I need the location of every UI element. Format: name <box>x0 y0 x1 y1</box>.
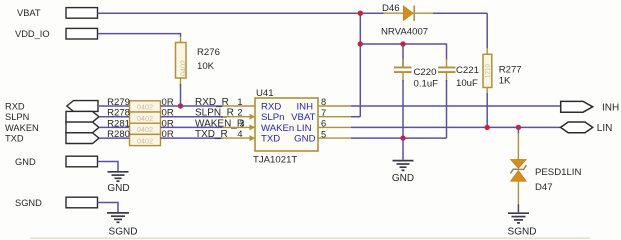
wire INH <box>351 105 561 107</box>
wire VBAT rail right of diode <box>433 12 487 14</box>
wire pin7 to VBAT vertical <box>351 116 360 118</box>
wire rail2 <box>360 44 446 60</box>
svg-text:5: 5 <box>321 129 326 139</box>
svg-text:0402: 0402 <box>137 136 153 145</box>
svg-text:VBAT: VBAT <box>291 112 315 123</box>
resistor R277 <box>483 13 522 94</box>
svg-text:SLPn: SLPn <box>261 112 284 123</box>
svg-text:1K: 1K <box>499 76 511 87</box>
resistor R281 <box>107 118 174 134</box>
ground SGND right <box>508 213 537 237</box>
svg-text:C221: C221 <box>456 65 479 76</box>
ground GND left <box>107 172 129 194</box>
wire C220 to GND <box>402 80 404 138</box>
wire SLPN_R <box>161 116 223 118</box>
svg-text:0402: 0402 <box>178 60 187 76</box>
svg-text:SGND: SGND <box>15 198 42 208</box>
svg-text:R281: R281 <box>107 118 130 129</box>
port GND <box>15 156 98 167</box>
svg-text:INH: INH <box>602 103 619 114</box>
svg-text:U41: U41 <box>256 88 274 99</box>
port TXD <box>5 133 99 144</box>
bottom border line <box>30 237 590 239</box>
wire SLPN row left <box>99 116 130 118</box>
wire LIN <box>351 126 561 128</box>
svg-text:7: 7 <box>321 108 326 118</box>
junction rail2 <box>358 41 363 46</box>
svg-text:C220: C220 <box>414 67 437 78</box>
svg-text:INH: INH <box>296 101 313 112</box>
junction rail2 C220 <box>400 41 405 46</box>
svg-text:D47: D47 <box>535 182 553 193</box>
svg-text:WAKEN: WAKEN <box>5 123 39 133</box>
port INH <box>561 101 620 113</box>
diode D46 <box>381 3 433 38</box>
diode D47 PESD1LIN <box>511 127 582 205</box>
pin 3 stub <box>223 124 256 130</box>
pin 7 stub <box>318 116 351 118</box>
svg-text:GND: GND <box>107 183 129 194</box>
port VBAT <box>17 8 98 19</box>
svg-text:SGND: SGND <box>508 227 537 238</box>
port LIN <box>561 122 613 134</box>
svg-text:LIN: LIN <box>297 123 312 134</box>
svg-text:VDD_IO: VDD_IO <box>15 29 50 39</box>
wire SGND port <box>98 203 119 213</box>
junction R276/RXD_R <box>178 103 183 108</box>
capacitor C221 <box>438 59 479 89</box>
svg-text:TJA1021T: TJA1021T <box>253 155 297 166</box>
pin 8 stub <box>318 105 351 107</box>
svg-text:0.1uF: 0.1uF <box>414 79 439 90</box>
wire VBAT rail <box>98 12 384 14</box>
port RXD <box>5 101 98 112</box>
port SGND <box>15 197 98 208</box>
svg-text:TXD: TXD <box>261 134 280 145</box>
svg-text:NRVA4007: NRVA4007 <box>381 27 428 38</box>
svg-text:WAKEn: WAKEn <box>261 123 294 134</box>
wire TXD row left <box>99 137 130 139</box>
svg-text:R277: R277 <box>499 65 522 76</box>
port WAKEN <box>5 122 99 133</box>
svg-text:0402: 0402 <box>137 114 153 123</box>
svg-text:R280: R280 <box>107 129 130 140</box>
svg-text:SGND: SGND <box>109 227 138 238</box>
resistor R280 <box>107 129 174 145</box>
svg-text:GND: GND <box>294 134 315 145</box>
svg-text:LIN: LIN <box>597 123 613 134</box>
svg-text:10uF: 10uF <box>456 78 478 89</box>
wire RXD_R <box>161 105 223 107</box>
svg-text:0402: 0402 <box>137 125 153 134</box>
ground GND center <box>392 138 414 184</box>
svg-text:D46: D46 <box>382 3 400 14</box>
wire D47 to SGND <box>517 205 519 213</box>
svg-text:3: 3 <box>239 118 244 128</box>
wire vertical VBAT to pin7 <box>359 13 361 117</box>
port VDD_IO <box>15 28 98 39</box>
resistor R276 <box>176 36 220 85</box>
wire WAKEN row left <box>99 126 130 128</box>
svg-text:R276: R276 <box>197 47 220 58</box>
svg-text:R278: R278 <box>107 108 130 119</box>
svg-text:GND: GND <box>15 157 36 167</box>
capacitor C220 <box>394 44 438 90</box>
wire C221 to GND <box>446 80 448 138</box>
wire R276 to RXD_R <box>180 84 182 106</box>
junction R277 LIN <box>485 125 490 130</box>
svg-text:RXD: RXD <box>5 101 25 111</box>
resistor R278 <box>107 108 174 124</box>
port SLPN <box>5 111 99 122</box>
resistor R279 <box>107 97 174 112</box>
pin 4 stub <box>223 135 256 141</box>
svg-text:0402: 0402 <box>137 103 153 112</box>
svg-text:4: 4 <box>237 129 242 139</box>
svg-text:TXD: TXD <box>5 134 24 144</box>
pin 2 stub <box>223 114 256 120</box>
svg-text:R279: R279 <box>107 97 130 108</box>
wire R277 to LIN <box>486 93 488 127</box>
svg-text:GND: GND <box>392 173 414 184</box>
junction C220 GND <box>400 135 405 140</box>
svg-text:RXD: RXD <box>261 101 281 112</box>
wire WAKEN_R <box>161 126 223 128</box>
ground SGND left <box>107 213 137 238</box>
svg-text:SLPN: SLPN <box>5 112 29 122</box>
IC U41 TJA1021T <box>253 88 318 166</box>
pin 5 stub <box>318 137 351 139</box>
svg-text:10K: 10K <box>197 61 215 72</box>
wire GND port <box>98 162 119 172</box>
wire TXD_R <box>161 137 223 139</box>
wire VDD_IO <box>98 34 181 37</box>
pin 6 stub <box>318 126 351 128</box>
svg-text:1: 1 <box>237 97 242 107</box>
svg-text:6: 6 <box>321 119 326 129</box>
svg-text:PESD1LIN: PESD1LIN <box>535 167 581 178</box>
pin 1 stub <box>223 105 256 107</box>
wire GND (pin 5) <box>351 137 447 139</box>
svg-text:1210: 1210 <box>484 63 491 78</box>
svg-text:2: 2 <box>237 108 242 118</box>
wire RXD row left <box>98 105 130 107</box>
svg-text:8: 8 <box>321 97 326 107</box>
junction D47 LIN <box>516 125 521 130</box>
junction VBAT rail <box>358 11 363 16</box>
svg-text:VBAT: VBAT <box>17 8 41 18</box>
